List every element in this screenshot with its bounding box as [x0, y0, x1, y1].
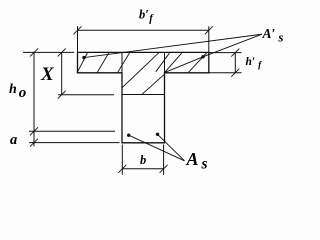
T-section outline (flange + web)	[78, 52, 209, 142]
top extension line (section top level)	[23, 51, 74, 53]
rebar dot As left	[127, 134, 130, 137]
rebar dot A's left	[82, 56, 85, 59]
svg-text:a: a	[10, 132, 17, 148]
rebar dot As right	[156, 133, 159, 136]
svg-text:b: b	[140, 153, 146, 167]
tick X top	[58, 48, 66, 56]
tick X bottom	[58, 91, 66, 99]
dimension b line	[122, 145, 163, 175]
hatch of compression zone	[77, 53, 207, 95]
tick b right	[160, 165, 168, 173]
rebar dot A's right	[201, 55, 204, 58]
dimension h_o line	[33, 52, 35, 146]
leader A's long	[84, 34, 262, 57]
web right edge through flange	[164, 52, 166, 72]
leader As right	[158, 134, 185, 161]
dimension h'f line	[209, 53, 242, 73]
X bottom extension line	[58, 94, 114, 96]
tick a bottom	[30, 139, 38, 147]
tick h_o top	[30, 48, 38, 56]
neutral axis line in web	[122, 94, 165, 96]
svg-text:X: X	[40, 64, 55, 85]
tick b'f right	[205, 26, 213, 34]
dimension b'f line	[78, 26, 209, 52]
tick b'f left	[74, 26, 82, 34]
tick b left	[118, 165, 126, 173]
bottom level extension line	[29, 142, 120, 144]
leader As left	[129, 135, 185, 161]
dimension X line	[61, 52, 63, 94]
tick h'f bottom	[231, 69, 239, 77]
leader A's short	[165, 34, 262, 72]
web left edge through flange	[121, 52, 123, 72]
tick h'f top	[231, 49, 239, 57]
steel centroid extension line	[29, 130, 115, 132]
tick h_o bottom / a top	[30, 127, 38, 135]
